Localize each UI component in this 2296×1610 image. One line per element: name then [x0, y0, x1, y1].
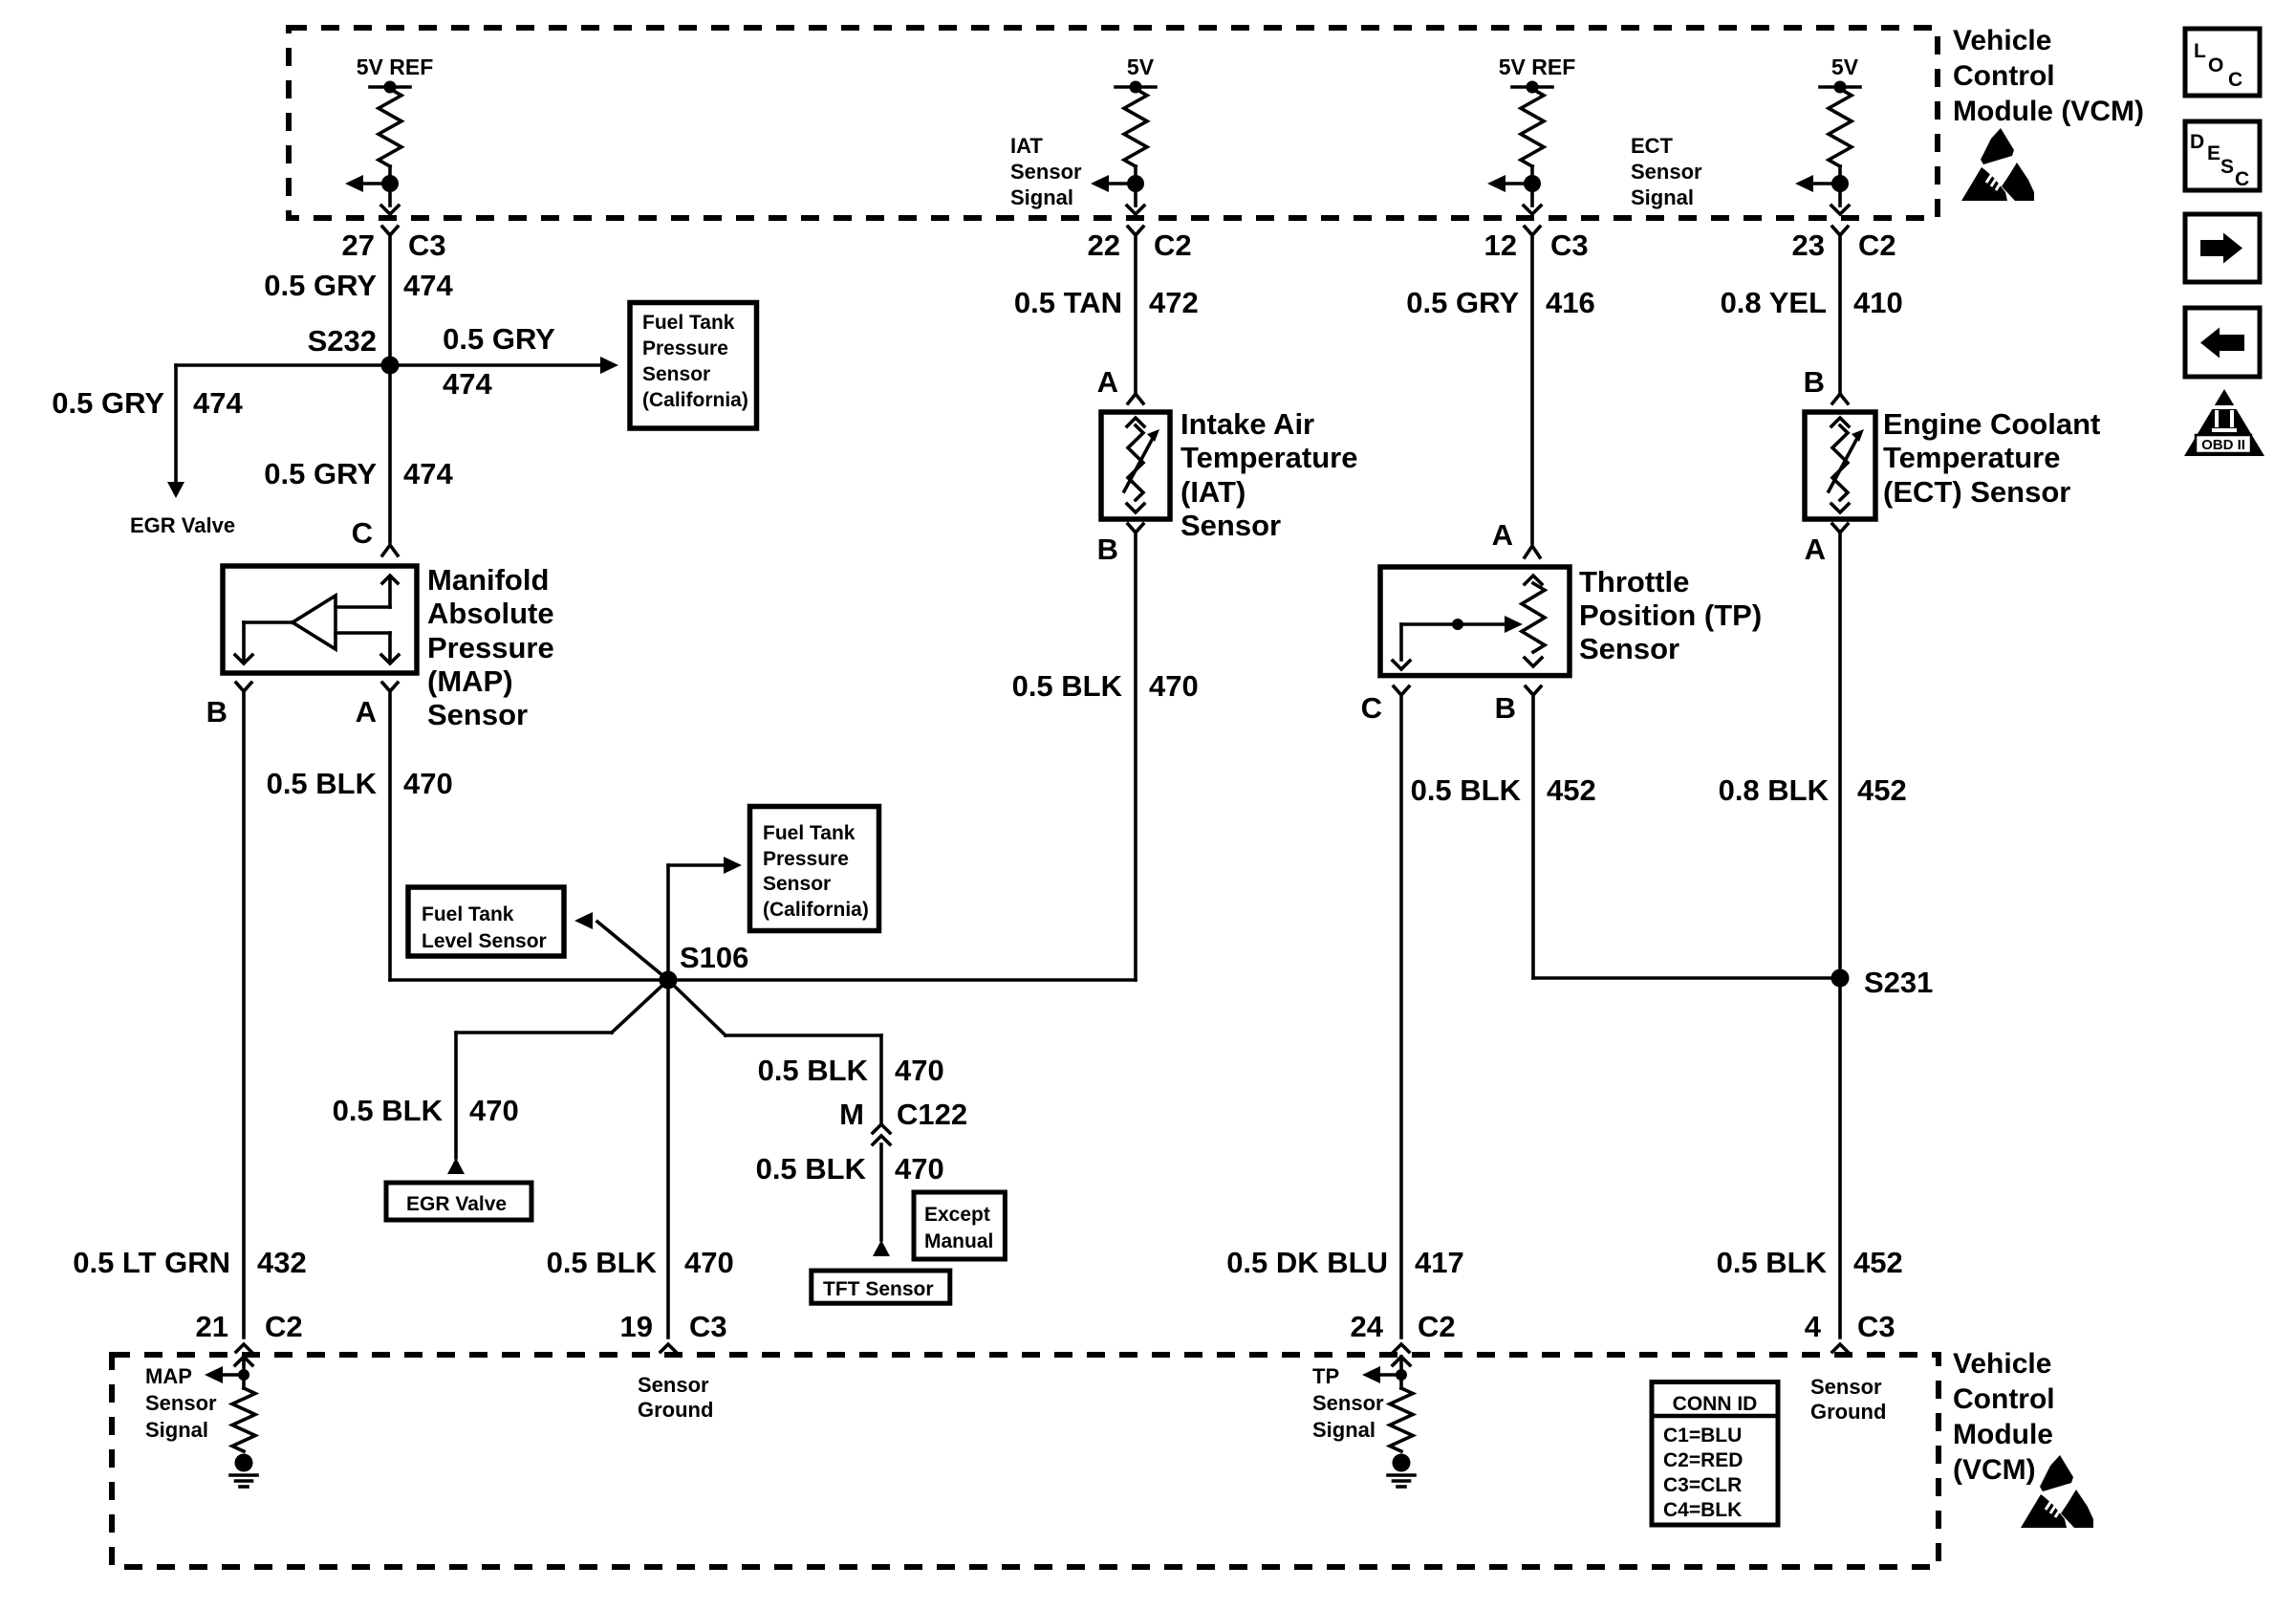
wire sensor ground rail: [390, 978, 1136, 982]
svg-text:(VCM): (VCM): [1953, 1454, 2036, 1486]
label 417: [1415, 1246, 1464, 1279]
label pin A IAT: [1097, 365, 1118, 399]
resistor VCM pull-up col1: [379, 89, 401, 166]
resistor VCM pull-up col3: [1521, 89, 1544, 166]
signal tap arrow col2: [1091, 175, 1136, 192]
svg-text:5V: 5V: [1831, 54, 1859, 79]
svg-text:C: C: [2228, 69, 2242, 91]
svg-text:0.5 TAN: 0.5 TAN: [1014, 286, 1122, 319]
svg-text:Ground: Ground: [1810, 1400, 1886, 1424]
connector pin A TP: [1525, 546, 1540, 557]
connector C122 inline: [873, 1124, 890, 1144]
connector pin 4: [1832, 1344, 1848, 1352]
svg-text:Sensor: Sensor: [1010, 160, 1082, 184]
svg-text:C1=BLU: C1=BLU: [1663, 1425, 1742, 1447]
icon DESC box: [2185, 121, 2260, 190]
node 5V REF rail bar col1: [370, 81, 410, 94]
svg-text:Temperature: Temperature: [1883, 441, 2061, 474]
svg-text:C2: C2: [1418, 1310, 1456, 1343]
label IAT Sensor Signal: [1010, 134, 1082, 209]
IAT thermistor symbol: [1124, 418, 1159, 512]
svg-text:452: 452: [1853, 1246, 1903, 1279]
CONN ID table: [1652, 1382, 1778, 1526]
svg-text:0.5 GRY: 0.5 GRY: [52, 386, 164, 420]
svg-text:A: A: [1805, 533, 1826, 566]
svg-text:Signal: Signal: [1631, 185, 1694, 209]
svg-text:5V REF: 5V REF: [1499, 54, 1576, 79]
svg-text:0.5 BLK: 0.5 BLK: [333, 1094, 444, 1127]
connector id C2 col2: [1154, 228, 1192, 262]
label 470 (EGR): [469, 1094, 519, 1127]
svg-text:Module (VCM): Module (VCM): [1953, 96, 2144, 127]
label TFT Sensor: [823, 1278, 934, 1300]
pin number 4: [1805, 1310, 1822, 1343]
resistor VCM pull-up col4: [1829, 89, 1852, 166]
label Intake Air Temperature (IAT) Sensor: [1180, 407, 1358, 542]
label 0.5 BLK (TP B): [1411, 773, 1522, 807]
icon left-arrow box: [2185, 308, 2260, 377]
signal tap arrow col4: [1795, 175, 1840, 192]
MAP sensor signal input circuit: [205, 1357, 257, 1487]
ESD symbol top (static sensitive device icon): [1961, 128, 2034, 201]
arrow into connector col2: [1127, 206, 1144, 214]
svg-text:B: B: [1804, 365, 1825, 399]
connector id C2 (pin21): [265, 1310, 303, 1343]
label pin C MAP: [352, 516, 373, 550]
svg-text:Sensor: Sensor: [1312, 1391, 1384, 1415]
label 470 (pin19): [684, 1246, 734, 1279]
label 0.5 BLK (pin4): [1717, 1246, 1828, 1279]
svg-text:19: 19: [620, 1310, 653, 1343]
label Vehicle Control Module (VCM) bottom right: [1953, 1348, 2055, 1486]
pin number 24: [1351, 1310, 1384, 1343]
svg-text:474: 474: [193, 386, 243, 420]
svg-text:Except: Except: [924, 1204, 990, 1226]
svg-text:12: 12: [1484, 228, 1517, 262]
label pin A TP: [1492, 518, 1513, 552]
svg-text:417: 417: [1415, 1246, 1464, 1279]
component box MAP sensor: [223, 566, 417, 673]
label 474 (branch right): [443, 367, 492, 401]
junction dot col4: [1831, 175, 1849, 192]
label C122: [897, 1098, 967, 1131]
wire IAT B to S106 rail: [1134, 533, 1137, 980]
label 0.5 BLK (C122 upper): [758, 1054, 869, 1087]
svg-text:0.5 BLK: 0.5 BLK: [547, 1246, 658, 1279]
connector pin B TP: [1526, 686, 1541, 695]
svg-text:Signal: Signal: [145, 1418, 208, 1442]
svg-text:Sensor: Sensor: [1810, 1375, 1882, 1399]
svg-text:B: B: [1495, 691, 1516, 725]
wire MAP B to pin 21: [242, 691, 246, 1338]
svg-text:470: 470: [1149, 669, 1199, 703]
svg-text:Vehicle: Vehicle: [1953, 25, 2051, 56]
label pin A ECT: [1805, 533, 1826, 566]
connector pin col3: [1525, 227, 1540, 235]
svg-text:Sensor: Sensor: [642, 363, 710, 385]
connector pin B IAT: [1128, 524, 1143, 533]
svg-text:S106: S106: [680, 941, 748, 974]
label 5V (IAT 5V): [1127, 54, 1155, 79]
svg-text:474: 474: [403, 457, 453, 490]
label Throttle Position (TP) Sensor: [1579, 565, 1762, 665]
label pin B IAT: [1097, 533, 1118, 566]
label 5V REF (MAP 5V REF): [357, 54, 434, 79]
icon right-arrow box: [2185, 214, 2260, 282]
svg-text:TFT Sensor: TFT Sensor: [823, 1278, 934, 1300]
connector pin 24: [1394, 1344, 1409, 1352]
resistor VCM pull-up col2: [1124, 89, 1147, 166]
label pin B TP: [1495, 691, 1516, 725]
svg-text:Control: Control: [1953, 60, 2055, 92]
svg-text:TP: TP: [1312, 1364, 1339, 1388]
wire 474 pin27 to S232: [388, 235, 392, 365]
svg-text:C122: C122: [897, 1098, 967, 1131]
arrow into connector col4: [1831, 206, 1849, 214]
splice S231: [1831, 969, 1850, 988]
icon LOC box: [2185, 29, 2260, 96]
svg-text:5V REF: 5V REF: [357, 54, 434, 79]
junction dot col3: [1524, 175, 1541, 192]
connector pin col4: [1832, 227, 1848, 235]
svg-text:0.5 GRY: 0.5 GRY: [264, 269, 377, 302]
svg-text:Manifold: Manifold: [427, 563, 549, 597]
label pin B ECT: [1804, 365, 1825, 399]
label 470 (C122 upper): [895, 1054, 944, 1087]
connector pin col2: [1128, 227, 1143, 235]
svg-text:0.5 BLK: 0.5 BLK: [1717, 1246, 1828, 1279]
svg-text:Sensor: Sensor: [427, 698, 528, 731]
svg-text:IAT: IAT: [1010, 134, 1043, 158]
svg-text:470: 470: [403, 767, 453, 800]
svg-text:0.5 BLK: 0.5 BLK: [756, 1152, 867, 1186]
svg-text:S231: S231: [1864, 966, 1933, 999]
label 432: [257, 1246, 307, 1279]
label 452 (TP B): [1547, 773, 1596, 807]
label 0.5 DK BLU: [1226, 1246, 1388, 1279]
component box TFT Sensor: [812, 1271, 950, 1303]
svg-text:0.8 YEL: 0.8 YEL: [1721, 286, 1827, 319]
signal tap arrow col1: [345, 175, 390, 192]
svg-text:L: L: [2194, 40, 2206, 62]
label Fuel Tank Pressure Sensor (California) lower: [763, 822, 869, 921]
component box Fuel Tank Level Sensor: [408, 887, 564, 956]
svg-text:Signal: Signal: [1010, 185, 1073, 209]
label Engine Coolant Temperature (ECT) Sensor: [1883, 407, 2100, 509]
svg-text:472: 472: [1149, 286, 1199, 319]
wire S232 left branch: [176, 365, 390, 482]
node 5V rail bar col2: [1116, 81, 1156, 94]
label 474 (lower): [403, 457, 453, 490]
svg-text:0.5 LT GRN: 0.5 LT GRN: [73, 1246, 230, 1279]
signal tap arrow col3: [1487, 175, 1532, 192]
svg-text:Absolute: Absolute: [427, 597, 554, 630]
svg-text:D: D: [2190, 131, 2204, 153]
wire S232 to Fuel Tank Pressure Sensor: [390, 357, 618, 374]
svg-text:C: C: [2235, 168, 2249, 190]
arrow into connector col1: [381, 206, 399, 214]
splice S106: [660, 971, 678, 990]
svg-text:(IAT): (IAT): [1180, 475, 1245, 509]
svg-text:470: 470: [684, 1246, 734, 1279]
svg-text:0.5 GRY: 0.5 GRY: [1406, 286, 1519, 319]
svg-text:0.5 BLK: 0.5 BLK: [1411, 773, 1522, 807]
svg-text:Sensor: Sensor: [638, 1373, 709, 1397]
arrow to EGR Valve (left): [167, 482, 184, 498]
wire resistor to junction col1: [388, 166, 392, 184]
label 0.5 GRY (474 lower): [264, 457, 377, 490]
connector pin C MAP: [382, 545, 398, 555]
wire junction to pin col4: [1838, 184, 1842, 206]
node 5V rail bar col4: [1820, 81, 1860, 94]
svg-text:B: B: [1097, 533, 1118, 566]
svg-text:474: 474: [403, 269, 453, 302]
connector pin col1: [382, 227, 398, 235]
svg-text:Fuel Tank: Fuel Tank: [763, 822, 856, 844]
svg-text:Pressure: Pressure: [642, 337, 728, 359]
component box TP sensor: [1380, 567, 1570, 676]
label Sensor Ground (pin19): [638, 1373, 713, 1422]
label Fuel Tank Pressure Sensor (California) upper: [642, 312, 748, 411]
svg-text:C4=BLK: C4=BLK: [1663, 1499, 1742, 1521]
svg-text:0.5 BLK: 0.5 BLK: [758, 1054, 869, 1087]
svg-text:C3: C3: [1550, 228, 1589, 262]
pin number 23 col4: [1792, 228, 1825, 262]
svg-text:Vehicle: Vehicle: [1953, 1348, 2051, 1380]
wire S232 to MAP sensor pin C: [388, 365, 392, 542]
label Fuel Tank Level Sensor: [422, 903, 547, 952]
label 0.8 YEL: [1721, 286, 1827, 319]
component box EGR Valve: [386, 1183, 531, 1220]
pin number 12 col3: [1484, 228, 1517, 262]
label 0.5 TAN: [1014, 286, 1122, 319]
connector pin 19: [661, 1344, 676, 1352]
svg-text:(California): (California): [642, 389, 748, 411]
label 0.5 GRY (TP): [1406, 286, 1519, 319]
svg-text:Ground: Ground: [638, 1398, 713, 1422]
svg-text:Control: Control: [1953, 1383, 2055, 1415]
svg-text:0.5 DK BLU: 0.5 DK BLU: [1226, 1246, 1388, 1279]
svg-text:4: 4: [1805, 1310, 1822, 1343]
svg-text:Position (TP): Position (TP): [1579, 598, 1762, 632]
label pin B MAP: [206, 695, 227, 729]
wire C122 to TFT Sensor: [879, 1144, 883, 1240]
svg-text:Module: Module: [1953, 1419, 2053, 1450]
label 410: [1853, 286, 1903, 319]
svg-text:A: A: [1492, 518, 1513, 552]
svg-text:C2: C2: [1858, 228, 1896, 262]
svg-text:S: S: [2220, 156, 2234, 178]
label 0.5 BLK (EGR): [333, 1094, 444, 1127]
MAP sensor internal symbol: [235, 576, 399, 664]
connector pin 21: [236, 1344, 251, 1352]
label 5V REF (TP 5V REF): [1499, 54, 1576, 79]
svg-text:ECT: ECT: [1631, 134, 1674, 158]
wire pin12 to TP A: [1530, 235, 1534, 543]
svg-text:Sensor: Sensor: [1631, 160, 1702, 184]
wire pin23 to ECT B: [1838, 235, 1842, 392]
svg-text:Manual: Manual: [924, 1230, 993, 1252]
component box ECT sensor: [1805, 412, 1875, 519]
pin number 22 col2: [1088, 228, 1120, 262]
svg-text:470: 470: [895, 1054, 944, 1087]
svg-text:Intake Air: Intake Air: [1180, 407, 1314, 441]
label MAP Sensor Signal: [145, 1364, 217, 1442]
svg-text:C2: C2: [265, 1310, 303, 1343]
connector pin A IAT: [1128, 394, 1143, 403]
svg-text:Throttle: Throttle: [1579, 565, 1689, 598]
svg-text:24: 24: [1351, 1310, 1384, 1343]
svg-text:0.5 BLK: 0.5 BLK: [1012, 669, 1123, 703]
svg-text:432: 432: [257, 1246, 307, 1279]
wire ECT A to pin 4: [1838, 533, 1842, 1338]
component box Fuel Tank Pressure Sensor (California) lower: [750, 807, 879, 931]
svg-text:C3: C3: [408, 228, 446, 262]
label pin C TP: [1361, 691, 1382, 725]
svg-text:0.5 BLK: 0.5 BLK: [267, 767, 378, 800]
connector pin A ECT: [1832, 524, 1848, 533]
TP sensor signal input circuit: [1362, 1357, 1415, 1487]
svg-text:CONN ID: CONN ID: [1673, 1393, 1758, 1415]
ECT thermistor symbol: [1829, 418, 1864, 512]
svg-text:452: 452: [1547, 773, 1596, 807]
label 0.5 BLK (MAP A): [267, 767, 378, 800]
svg-text:O: O: [2208, 54, 2223, 76]
pin number 27 col1: [342, 228, 375, 262]
connector id C2 (pin24): [1418, 1310, 1456, 1343]
svg-text:0.5 GRY: 0.5 GRY: [264, 457, 377, 490]
wire junction to pin col1: [388, 184, 392, 206]
svg-text:EGR Valve: EGR Valve: [406, 1193, 507, 1215]
svg-text:(California): (California): [763, 899, 869, 921]
svg-text:474: 474: [443, 367, 492, 401]
node 5V REF rail bar col3: [1512, 81, 1552, 94]
wire resistor to junction col2: [1134, 166, 1137, 184]
svg-text:470: 470: [469, 1094, 519, 1127]
label S232: [308, 324, 377, 358]
wire junction to pin col3: [1530, 184, 1534, 206]
connector pin C TP: [1394, 686, 1409, 695]
wire resistor to junction col3: [1530, 166, 1534, 184]
svg-text:Sensor: Sensor: [1180, 509, 1281, 542]
label Vehicle Control Module (VCM) top right: [1953, 25, 2144, 127]
label 416: [1546, 286, 1595, 319]
svg-text:Sensor: Sensor: [145, 1391, 217, 1415]
connector id C3 (pin19): [689, 1310, 727, 1343]
svg-text:22: 22: [1088, 228, 1120, 262]
svg-text:C3: C3: [1857, 1310, 1895, 1343]
TP potentiometer symbol: [1393, 576, 1545, 669]
svg-text:OBD II: OBD II: [2201, 437, 2245, 453]
svg-text:M: M: [839, 1098, 864, 1131]
connector pin B ECT: [1832, 394, 1848, 403]
label 0.5 BLK (pin19): [547, 1246, 658, 1279]
svg-text:S232: S232: [308, 324, 377, 358]
label Sensor Ground (pin4): [1810, 1375, 1886, 1424]
svg-text:Engine Coolant: Engine Coolant: [1883, 407, 2100, 441]
label 0.5 GRY (left branch): [52, 386, 164, 420]
svg-text:(ECT) Sensor: (ECT) Sensor: [1883, 475, 2070, 509]
wire S106 to C122: [668, 980, 881, 1124]
svg-text:Temperature: Temperature: [1180, 441, 1358, 474]
connector id C3 col1: [408, 228, 446, 262]
svg-text:C3=CLR: C3=CLR: [1663, 1474, 1742, 1496]
label 474 (left branch): [193, 386, 243, 420]
label 470 (IAT B): [1149, 669, 1199, 703]
svg-text:(MAP): (MAP): [427, 664, 513, 698]
pin number 21: [196, 1310, 228, 1343]
Vehicle Control Module (VCM) bottom dashed box: [112, 1355, 1939, 1567]
svg-text:Level Sensor: Level Sensor: [422, 930, 547, 952]
svg-text:Pressure: Pressure: [763, 848, 849, 870]
svg-text:Fuel Tank: Fuel Tank: [642, 312, 735, 334]
label 0.5 GRY (474 upper): [264, 269, 377, 302]
wire S106 to Fuel Tank Pressure Sensor lower: [668, 857, 742, 980]
label 470 (MAP A): [403, 767, 453, 800]
label 0.5 BLK (IAT B): [1012, 669, 1123, 703]
svg-text:0.8 BLK: 0.8 BLK: [1719, 773, 1830, 807]
label 0.5 BLK (C122 lower): [756, 1152, 867, 1186]
label pin A MAP: [356, 695, 377, 729]
label EGR Valve (left): [130, 513, 235, 537]
label 0.5 LT GRN: [73, 1246, 230, 1279]
svg-text:Fuel Tank: Fuel Tank: [422, 903, 514, 925]
label TP Sensor Signal: [1312, 1364, 1384, 1442]
wire TP B to S231: [1533, 695, 1831, 978]
svg-text:23: 23: [1792, 228, 1825, 262]
label EGR Valve box: [406, 1193, 507, 1215]
component box IAT sensor: [1101, 412, 1170, 519]
label ECT Sensor Signal: [1631, 134, 1702, 209]
svg-text:E: E: [2207, 142, 2220, 164]
svg-text:B: B: [206, 695, 227, 729]
ESD symbol bottom: [2021, 1455, 2093, 1528]
connector pin B MAP: [236, 683, 251, 691]
junction dot col1: [381, 175, 399, 192]
svg-text:21: 21: [196, 1310, 228, 1343]
label S106: [680, 941, 748, 974]
label 452 (ECT A): [1857, 773, 1907, 807]
label S231: [1864, 966, 1933, 999]
Vehicle Control Module (VCM) top dashed box: [289, 28, 1938, 218]
svg-text:MAP: MAP: [145, 1364, 192, 1388]
svg-text:27: 27: [342, 228, 375, 262]
svg-text:Sensor: Sensor: [763, 873, 831, 895]
svg-text:416: 416: [1546, 286, 1595, 319]
wire pin22 to IAT A: [1134, 235, 1137, 392]
svg-text:EGR Valve: EGR Valve: [130, 513, 235, 537]
pin number 19: [620, 1310, 653, 1343]
connector id C3 col3: [1550, 228, 1589, 262]
wire S106 to pin 19: [666, 980, 670, 1338]
wire S106 to Fuel Tank Level Sensor: [574, 912, 668, 980]
arrow to TFT Sensor: [873, 1240, 890, 1256]
component box Except Manual: [914, 1192, 1005, 1259]
arrow into connector col3: [1524, 206, 1541, 214]
label 452 (pin4): [1853, 1246, 1903, 1279]
wire junction to pin col2: [1134, 184, 1137, 206]
svg-text:C2: C2: [1154, 228, 1192, 262]
svg-text:410: 410: [1853, 286, 1903, 319]
label 470 (C122 lower): [895, 1152, 944, 1186]
svg-text:Sensor: Sensor: [1579, 632, 1679, 665]
svg-text:452: 452: [1857, 773, 1907, 807]
label 472: [1149, 286, 1199, 319]
label Except Manual: [924, 1204, 993, 1252]
connector id C3 (pin4): [1857, 1310, 1895, 1343]
wire S106 to EGR Valve: [456, 980, 668, 1158]
svg-text:C2=RED: C2=RED: [1663, 1449, 1743, 1471]
